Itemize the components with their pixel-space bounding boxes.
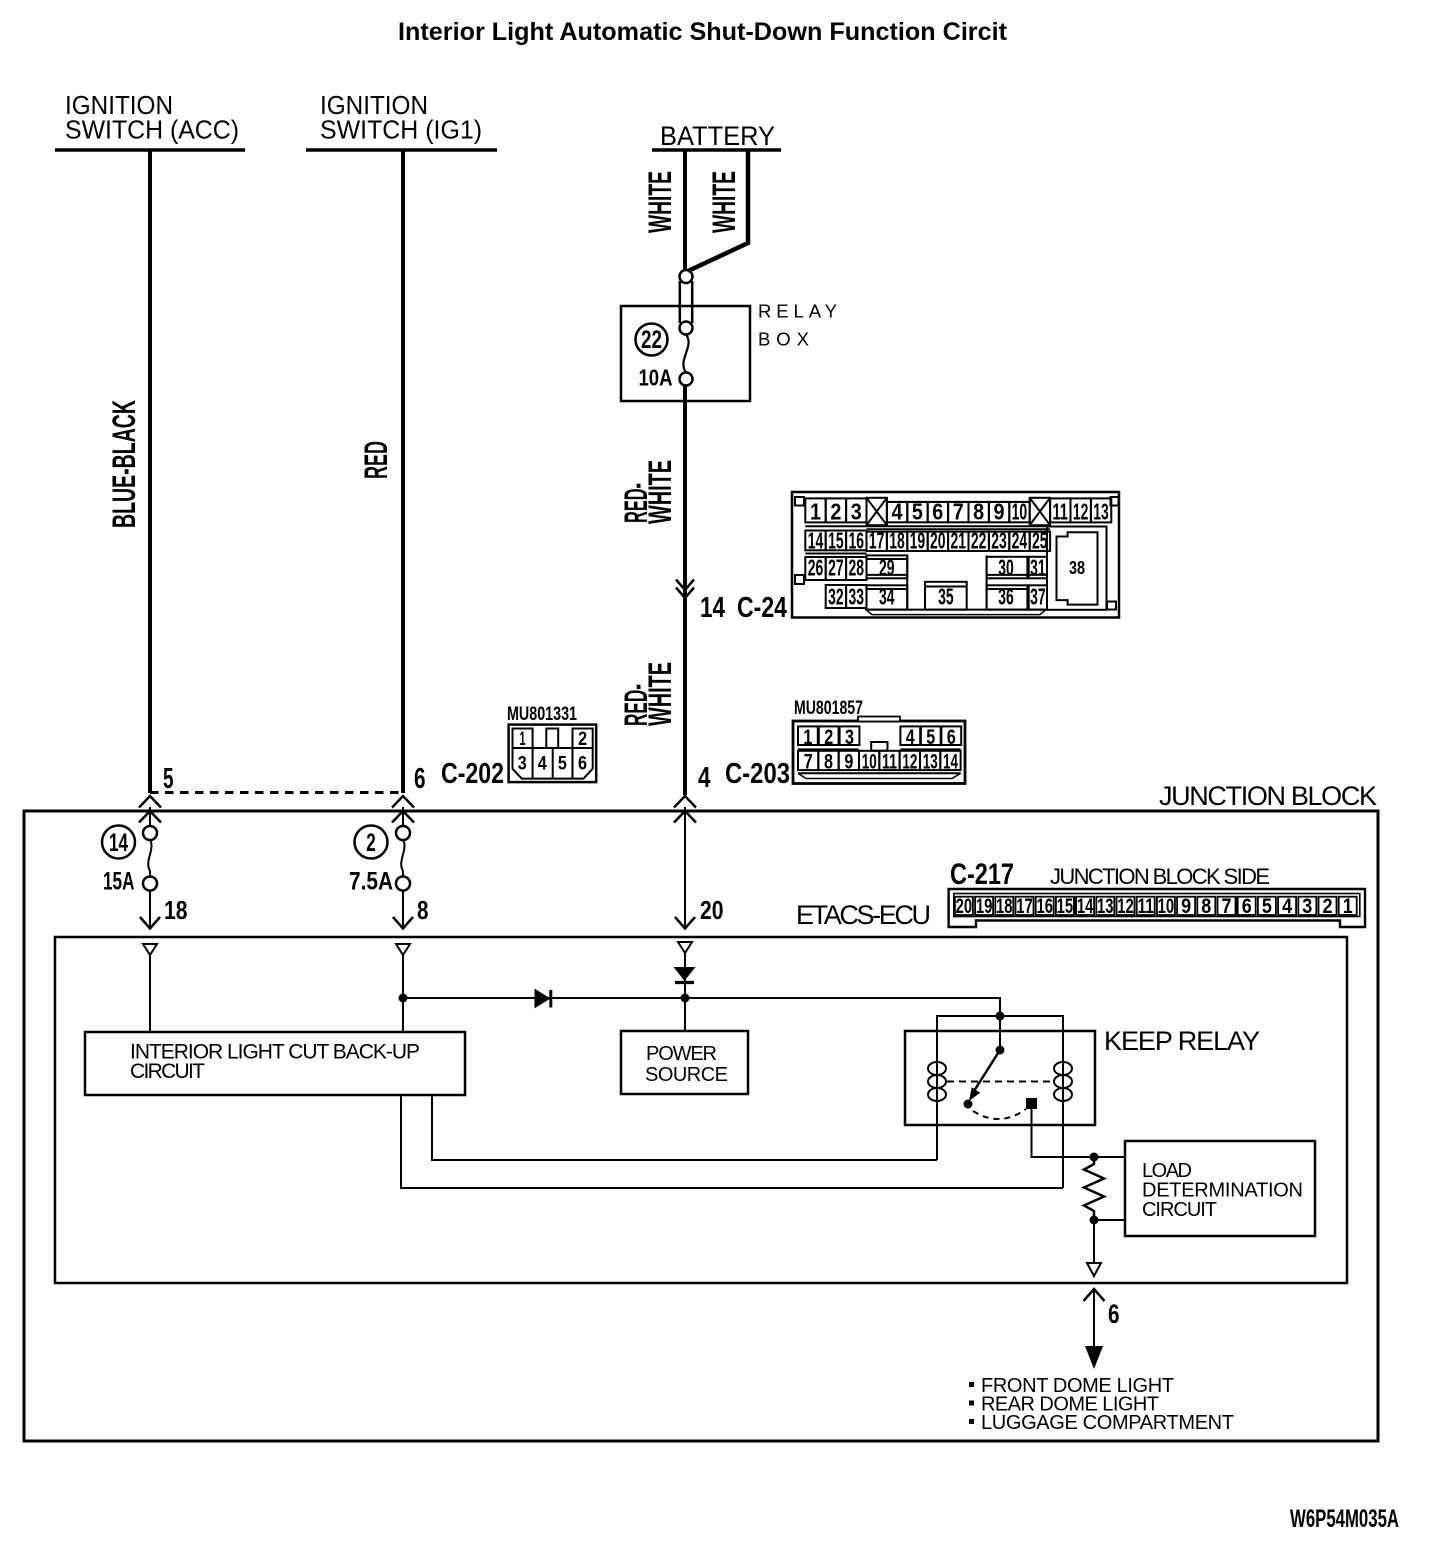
- svg-text:4: 4: [698, 762, 711, 794]
- wire resistor bottom to load box: [1094, 1219, 1125, 1221]
- svg-text:C-203: C-203: [725, 758, 790, 790]
- svg-text:23: 23: [991, 528, 1007, 554]
- svg-text:35: 35: [938, 584, 954, 610]
- svg-text:MU801857: MU801857: [794, 698, 863, 719]
- svg-text:10: 10: [862, 750, 877, 774]
- svg-text:14: 14: [943, 750, 958, 774]
- node resistor top: [1090, 1153, 1099, 1162]
- connector crossing arrows C-24: [676, 580, 694, 591]
- connector entry arrows ACC: [139, 796, 161, 823]
- relay coil right: [1062, 1057, 1064, 1188]
- output triangle pin 6: [1087, 1263, 1101, 1276]
- connector C-202: [509, 725, 597, 783]
- connector entry arrows IG1: [392, 796, 414, 823]
- svg-text:18: 18: [164, 895, 188, 925]
- svg-text:10: 10: [1012, 499, 1028, 525]
- svg-text:5: 5: [163, 763, 174, 795]
- svg-text:17: 17: [869, 528, 885, 554]
- svg-text:15: 15: [828, 528, 844, 554]
- svg-text:21: 21: [950, 528, 966, 554]
- keep relay box: [905, 1031, 1095, 1125]
- svg-text:1: 1: [520, 728, 526, 750]
- svg-text:16: 16: [1036, 895, 1053, 918]
- wire contact down: [1032, 1109, 1126, 1157]
- svg-text:20: 20: [700, 895, 724, 925]
- fuse 22 element: [683, 335, 688, 373]
- svg-text:9: 9: [844, 750, 853, 774]
- node resistor bottom: [1090, 1216, 1099, 1225]
- svg-text:17: 17: [1016, 895, 1033, 918]
- svg-text:8: 8: [973, 499, 984, 525]
- wire output down: [1093, 1220, 1095, 1263]
- interior light cut back-up circuit box: [85, 1032, 465, 1095]
- svg-text:7.5A: 7.5A: [349, 868, 393, 896]
- svg-text:16: 16: [849, 528, 865, 554]
- svg-text:10A: 10A: [639, 365, 673, 391]
- svg-text:31: 31: [1030, 555, 1046, 581]
- svg-text:C-24: C-24: [737, 592, 787, 624]
- svg-text:12: 12: [902, 750, 917, 774]
- node IGNITION SWITCH (ACC) label: [65, 90, 239, 145]
- wire IG1 inside junction block: [402, 807, 404, 826]
- svg-text:5: 5: [1262, 895, 1272, 918]
- svg-text:5: 5: [926, 725, 935, 749]
- svg-text:1: 1: [1343, 895, 1353, 918]
- relay switch common: [999, 1016, 1001, 1050]
- svg-text:RED: RED: [358, 441, 394, 479]
- fuse holder mid circle: [680, 322, 693, 335]
- wire ACC inside junction block: [149, 807, 151, 826]
- fuse 14: [143, 826, 157, 840]
- svg-text:14: 14: [808, 528, 824, 554]
- fuse 2: [396, 826, 410, 840]
- wire backup to left coil: [432, 1095, 937, 1160]
- svg-text:15: 15: [1057, 895, 1074, 918]
- svg-text:CIRCUIT: CIRCUIT: [1142, 1199, 1217, 1221]
- svg-text:BATTERY: BATTERY: [660, 121, 775, 151]
- fuse bottom circle: [680, 373, 693, 386]
- svg-text:37: 37: [1030, 584, 1046, 610]
- power source box: [621, 1031, 748, 1094]
- svg-text:18: 18: [996, 895, 1013, 918]
- svg-text:4: 4: [892, 499, 903, 525]
- wire IG1 vertical: [401, 150, 405, 793]
- svg-text:18: 18: [889, 528, 905, 554]
- wire ACC vertical: [148, 150, 152, 793]
- svg-text:8: 8: [417, 895, 429, 925]
- wire pin20 vertical: [684, 953, 686, 1031]
- svg-text:2: 2: [824, 725, 833, 749]
- connector entry arrows battery: [674, 796, 696, 823]
- svg-text:29: 29: [879, 555, 895, 581]
- svg-text:2: 2: [1323, 895, 1333, 918]
- svg-text:2: 2: [830, 499, 841, 525]
- svg-text:13: 13: [923, 750, 938, 774]
- svg-text:14: 14: [109, 829, 128, 857]
- pin 14 C-24 label: [700, 592, 787, 624]
- wire label RED-WHITE lower: [618, 662, 678, 726]
- svg-text:9: 9: [994, 499, 1005, 525]
- relay contact dashed arc: [973, 1109, 1026, 1119]
- svg-text:JUNCTION BLOCK: JUNCTION BLOCK: [1159, 781, 1377, 811]
- svg-text:6: 6: [1242, 895, 1252, 918]
- svg-text:6: 6: [414, 763, 426, 795]
- svg-text:4: 4: [538, 752, 547, 774]
- svg-text:11: 11: [882, 750, 897, 774]
- connector C-24: [792, 492, 1119, 618]
- svg-text:7: 7: [953, 499, 964, 525]
- svg-text:12: 12: [1073, 499, 1089, 525]
- svg-text:13: 13: [1093, 499, 1109, 525]
- fuse holder top circle: [680, 270, 693, 283]
- wire battery to junction block: [683, 386, 687, 796]
- svg-text:JUNCTION BLOCK SIDE: JUNCTION BLOCK SIDE: [1050, 864, 1270, 889]
- svg-text:10: 10: [1158, 895, 1175, 918]
- svg-text:24: 24: [1012, 528, 1028, 554]
- relay coupling dashed line: [947, 1081, 1053, 1083]
- svg-text:4: 4: [1282, 895, 1292, 918]
- svg-text:8: 8: [1201, 895, 1211, 918]
- power feed bar ACC: [55, 148, 245, 152]
- svg-text:34: 34: [879, 584, 895, 610]
- output arrow assembly: [1084, 1289, 1105, 1301]
- junction block boundary: [24, 811, 1378, 1441]
- svg-text:WHITE: WHITE: [706, 171, 742, 233]
- svg-text:32: 32: [828, 584, 844, 610]
- svg-text:19: 19: [910, 528, 926, 554]
- svg-text:11: 11: [1137, 895, 1154, 918]
- input triangle pin 20: [678, 942, 692, 953]
- svg-text:1: 1: [810, 499, 821, 525]
- load determination circuit box: [1125, 1141, 1315, 1236]
- svg-text:38: 38: [1069, 558, 1085, 578]
- wire battery inside junction block: [684, 807, 686, 926]
- fuse number 22 circled: [636, 324, 668, 356]
- input triangle pin 8: [396, 944, 410, 955]
- svg-text:C-202: C-202: [441, 758, 504, 790]
- svg-text:POWER: POWER: [646, 1043, 717, 1065]
- svg-text:14: 14: [700, 592, 725, 624]
- svg-text:15A: 15A: [103, 868, 135, 896]
- diode D2 vertical battery: [675, 968, 695, 981]
- power feed bar IG1: [306, 148, 497, 152]
- svg-text:13: 13: [1097, 895, 1114, 918]
- svg-text:20: 20: [930, 528, 946, 554]
- connector C-203: [793, 717, 965, 784]
- svg-text:BOX: BOX: [758, 329, 809, 350]
- svg-text:ETACS-ECU: ETACS-ECU: [796, 900, 931, 930]
- svg-text:25: 25: [1032, 528, 1048, 554]
- ETACS-ECU inner boundary: [55, 937, 1347, 1283]
- node battery-powersource junction: [681, 994, 690, 1003]
- svg-text:7: 7: [804, 750, 813, 774]
- svg-text:5: 5: [912, 499, 923, 525]
- svg-text:27: 27: [828, 555, 844, 581]
- svg-text:WHITE: WHITE: [642, 662, 678, 726]
- connector C-217 junction block side: [949, 889, 1365, 927]
- power feed bar BATTERY: [652, 148, 781, 152]
- wire pin8 vertical: [402, 955, 404, 1032]
- svg-text:W6P54M035A: W6P54M035A: [1290, 1505, 1399, 1533]
- svg-text:19: 19: [976, 895, 993, 918]
- svg-text:6: 6: [1108, 1299, 1120, 1329]
- relay fixed contact square: [1026, 1098, 1037, 1109]
- svg-text:6: 6: [578, 752, 587, 774]
- svg-text:RELAY: RELAY: [758, 301, 837, 322]
- svg-text:6: 6: [947, 725, 956, 749]
- svg-text:3: 3: [851, 499, 862, 525]
- node IGNITION SWITCH (IG1) label: [320, 90, 482, 145]
- svg-text:6: 6: [932, 499, 943, 525]
- svg-text:KEEP RELAY: KEEP RELAY: [1104, 1026, 1260, 1056]
- svg-text:CIRCUIT: CIRCUIT: [130, 1060, 205, 1083]
- svg-text:11: 11: [1052, 499, 1068, 525]
- dashed link wire ACC-IG1: [150, 791, 403, 794]
- svg-text:33: 33: [849, 584, 865, 610]
- wire pin18 to backup circuit: [149, 955, 151, 1032]
- svg-text:20: 20: [956, 895, 973, 918]
- svg-text:WHITE: WHITE: [642, 460, 678, 524]
- input triangle pin 18: [143, 944, 157, 955]
- svg-text:4: 4: [906, 725, 915, 749]
- svg-text:14: 14: [1077, 895, 1094, 918]
- svg-text:30: 30: [998, 555, 1014, 581]
- svg-text:3: 3: [518, 752, 527, 774]
- svg-text:22: 22: [971, 528, 987, 554]
- svg-text:Interior Light Automatic Shut-: Interior Light Automatic Shut-Down Funct…: [398, 18, 1008, 46]
- svg-text:28: 28: [849, 555, 865, 581]
- svg-text:1: 1: [803, 725, 812, 749]
- wire label RED-WHITE upper: [618, 460, 678, 524]
- svg-text:26: 26: [808, 555, 824, 581]
- svg-text:BLUE-BLACK: BLUE-BLACK: [106, 400, 142, 528]
- svg-text:36: 36: [998, 584, 1014, 610]
- load list: [969, 1375, 1234, 1434]
- relay armature: [974, 1050, 1000, 1091]
- svg-text:7: 7: [1222, 895, 1232, 918]
- svg-text:LUGGAGE COMPARTMENT: LUGGAGE COMPARTMENT: [981, 1412, 1234, 1434]
- svg-text:3: 3: [845, 725, 854, 749]
- wire backup to right coil: [401, 1095, 1063, 1188]
- wire battery right angled: [688, 150, 748, 271]
- svg-text:MU801331: MU801331: [507, 704, 577, 725]
- svg-text:SOURCE: SOURCE: [645, 1064, 728, 1086]
- svg-text:2: 2: [578, 728, 587, 750]
- svg-text:C-217: C-217: [950, 858, 1014, 891]
- svg-text:SWITCH (IG1): SWITCH (IG1): [320, 115, 482, 145]
- svg-text:SWITCH (ACC): SWITCH (ACC): [65, 115, 239, 145]
- keep relay top bus: [937, 1016, 1063, 1057]
- svg-text:2: 2: [366, 829, 376, 857]
- svg-text:3: 3: [1302, 895, 1312, 918]
- svg-text:5: 5: [558, 752, 567, 774]
- wire horizontal IG1 to keep relay: [403, 998, 1000, 1016]
- svg-text:8: 8: [824, 750, 833, 774]
- svg-text:9: 9: [1181, 895, 1191, 918]
- svg-text:WHITE: WHITE: [642, 171, 678, 233]
- relay box: [621, 306, 750, 401]
- relay coil left: [936, 1057, 938, 1160]
- svg-text:12: 12: [1117, 895, 1134, 918]
- resistor R1: [1084, 1157, 1104, 1220]
- wire battery left: [683, 150, 687, 271]
- node IG1 junction: [399, 994, 408, 1003]
- diode D1 horizontal: [535, 990, 550, 1008]
- svg-text:22: 22: [641, 326, 662, 354]
- fuse holder capsule: [679, 281, 682, 323]
